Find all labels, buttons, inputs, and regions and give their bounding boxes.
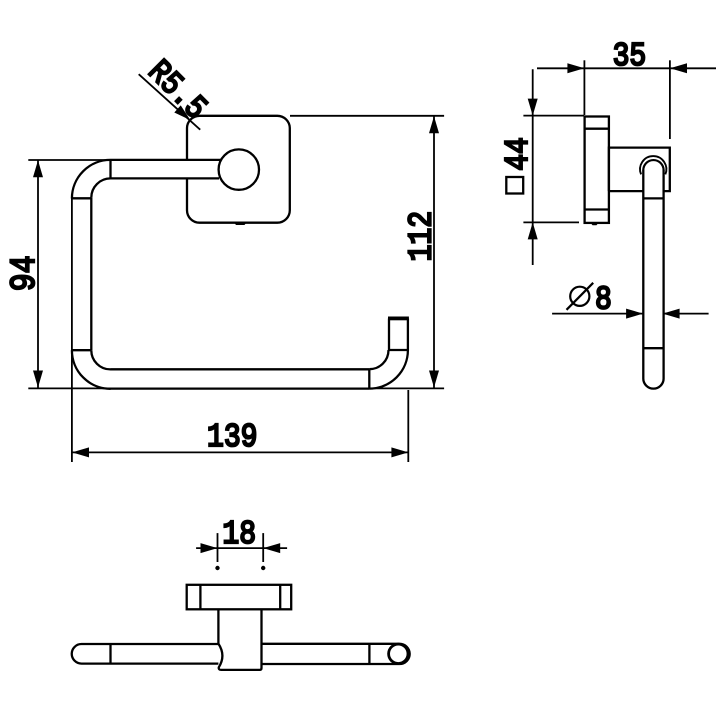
hanging tube top bend arc (side view) [643,160,663,170]
svg-text:8: 8 [595,283,612,320]
plate corner tangent line right (top view) [279,585,281,610]
dimension 139 right extension line [407,390,409,462]
wall plate (top view) [187,585,292,610]
dimension 18 right extension line [262,533,264,562]
dimension 18 left arrow [201,543,218,553]
dimension diameter 8 left arrow [626,309,643,319]
plate corner tangent line bottom (side view) [585,208,609,210]
joint line right stub [389,349,408,351]
svg-text:44: 44 [501,137,538,171]
dimension 18 left extension line [217,533,219,562]
radius leader R5.5 line [139,74,201,130]
radius leader arrowhead [174,105,190,120]
dimension 35 right extension line [669,60,671,139]
mounting post (top view) [218,609,261,670]
dimension 18 right arrow [263,543,280,553]
dimension 44 square symbol [506,177,523,194]
tube joint line below post (side view) [643,197,663,199]
lower-left bend inner arc [91,350,110,369]
dimension 94 line [28,160,444,388]
wall plate (side view) [585,117,609,223]
dimension 112 top extension line [290,115,444,117]
upper-left bend outer arc [72,160,111,199]
hanging tube right edge (side view) [662,170,664,379]
tube top edge (front view upper arm) [111,159,221,161]
dimension 112 line [290,116,444,388]
joint line left tube top [72,197,91,199]
set screw notch under plate (front view) [234,222,248,225]
dimension 94 bottom arrow [33,371,43,388]
dimension 112 top arrow [429,116,439,133]
dimension diameter 8 line [552,313,709,315]
tube joint line left (top view) [109,644,111,664]
dimension 35 line [537,60,716,139]
set screw notch under plate (side view) [591,223,599,225]
upper-left bend inner arc [91,178,110,197]
dimension 94/112 bottom extension line [28,387,444,389]
tube bore circle (top view) [389,644,408,663]
dimension 18 left extension dot [215,566,219,570]
dimension 44 top extension line [523,115,584,117]
lower-left bend outer arc [72,350,111,389]
pivot boss circle (front view) [219,149,259,189]
dimension diameter 8 right arrow [663,309,680,319]
svg-text:35: 35 [613,39,647,76]
joint line bottom arm right [368,369,370,388]
dimension 35 left extension line [583,60,585,115]
tube left arm bottom edge (top view) [82,662,219,664]
svg-text:18: 18 [222,517,256,554]
pivot collar arc (side view) [640,156,666,174]
mounting post (side view) [609,148,670,192]
dimension 44 bottom arrow [528,222,538,239]
svg-text:139: 139 [207,420,257,457]
left tube inner edge [90,198,92,351]
dimension 44 bottom extension line [523,221,579,223]
lower-right bend inner arc [369,350,388,369]
plate corner tangent line left (top view) [199,585,201,610]
right stub left edge [388,319,390,351]
dimension 35 right arrow [670,63,687,73]
svg-text:112: 112 [404,211,441,261]
tube rounded end cap (side view) [643,379,663,389]
dimension 94 top arrow [33,160,43,177]
tube joint line at upper-left bend [109,160,111,179]
dimension 139 left extension line [71,199,73,463]
tube left end cap (top view) [72,644,82,664]
tube joint line above end cap (side view) [643,347,663,349]
lower-right bend outer arc [369,350,408,389]
dimension 139 right arrow [391,447,408,457]
hanging tube left edge (side view) [642,170,644,379]
tube right arm top edge (top view) [262,643,400,645]
right stub end cap [388,317,409,321]
dimension 18 right extension dot [261,566,265,570]
dimension 139 left arrow [72,447,89,457]
plate corner tangent line top (side view) [585,128,609,130]
tube bottom edge (front view upper arm) [111,177,220,179]
diameter symbol [567,283,594,310]
dimension 94 top extension line [28,159,220,161]
tube right arm bottom edge (top view) [262,663,400,665]
tube joint line right (top view) [368,644,370,664]
dimension 112 bottom arrow [429,371,439,388]
dimension 44 line [523,69,584,265]
dimension 18 line [196,533,287,562]
svg-text:94: 94 [5,255,45,291]
tube bottom arm top edge [111,368,370,370]
wall plate (front view) [187,116,290,223]
tube bottom arm bottom edge [111,387,370,389]
dimension 35 left arrow [567,63,584,73]
dimension 44 top arrow [528,99,538,116]
tube left arm top edge (top view) [82,643,219,645]
joint line left tube bottom [72,349,91,351]
right stub right edge [407,319,409,351]
tube right end cap (top view) [400,644,410,664]
dimension 139 line [72,199,409,463]
